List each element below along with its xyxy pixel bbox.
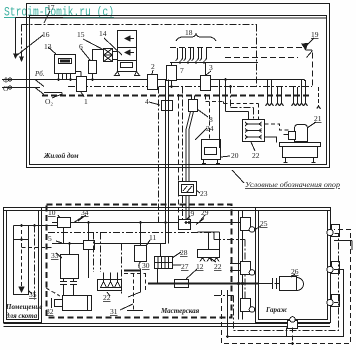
- svg-text:21: 21: [314, 114, 322, 123]
- wire pole to kettle dashed: [265, 124, 289, 130]
- svg-text:23: 23: [200, 189, 208, 198]
- bus into left bushing top: [204, 222, 241, 224]
- wire drop x88: [88, 223, 90, 279]
- svg-text:15: 15: [77, 30, 85, 39]
- workshop top bus: [52, 222, 212, 224]
- leader 31: [120, 304, 133, 310]
- pole 22 crossarms: [245, 122, 262, 126]
- panel 14 body: [118, 31, 137, 72]
- strip 12/22 hooks down: [198, 250, 220, 258]
- svg-text:Мастерская: Мастерская: [160, 307, 200, 315]
- box 23 hatch: [183, 186, 192, 192]
- box 9: [179, 220, 191, 230]
- svg-text:3: 3: [209, 63, 213, 72]
- ground baseline double: [4, 324, 331, 327]
- wire 10 drop: [63, 228, 65, 244]
- heavy bus to garage: [148, 283, 259, 285]
- wire 3 drop: [205, 63, 207, 77]
- breaker 7: [167, 66, 177, 81]
- bushing right bottom: [332, 295, 340, 307]
- pole box 22: [243, 120, 265, 142]
- svg-text:25: 25: [260, 219, 268, 228]
- motor 26 end bell: [297, 278, 304, 291]
- svg-text:19: 19: [311, 30, 319, 39]
- svg-text:Жилой дом: Жилой дом: [43, 152, 79, 160]
- leader 32 dashed: [46, 288, 60, 296]
- bushing right mid: [332, 262, 340, 274]
- leader 8: [197, 109, 208, 117]
- lamps cluster right 2: [292, 87, 300, 106]
- clamp bottom drop solid: [286, 328, 288, 337]
- svg-text:18: 18: [185, 28, 193, 37]
- leader 35: [29, 291, 32, 294]
- right solid inter-clamp: [334, 241, 352, 251]
- svg-text:1: 1: [84, 97, 88, 106]
- panel 14 arrow top: [125, 36, 134, 41]
- breaker 2: [148, 75, 158, 90]
- leader 25: [254, 226, 261, 230]
- wire lighting dash-dot bus: [68, 86, 312, 88]
- dash-dot vertical x122: [121, 244, 123, 296]
- svg-text:20: 20: [231, 151, 239, 160]
- leader 21: [307, 122, 316, 128]
- wire pole to table solid: [265, 137, 277, 143]
- kettle 21 handle: [289, 132, 296, 140]
- svg-text:О₂: О₂: [45, 97, 53, 106]
- svg-text:26: 26: [291, 267, 299, 276]
- lamp drop dashed right: [317, 87, 321, 109]
- leader 11: [146, 240, 150, 246]
- dashed verticals 31: [124, 273, 146, 310]
- svg-text:22: 22: [214, 262, 222, 271]
- svg-text:Помещение: Помещение: [5, 303, 42, 311]
- leader 12b: [186, 269, 197, 279]
- table 21 top: [280, 143, 321, 147]
- panel 14 drum: [121, 63, 133, 68]
- riser pair to garage: [239, 211, 243, 320]
- riser pair through 23: [186, 96, 195, 223]
- wire 17 drop to lighting bus: [256, 25, 258, 87]
- box 11: [135, 246, 147, 262]
- leader 1: [81, 92, 84, 97]
- box 8: [189, 100, 198, 112]
- wire 11 up: [140, 223, 142, 246]
- clamp bottom drop dashed: [292, 328, 294, 344]
- svg-text:32: 32: [46, 307, 54, 316]
- garage box outer: [256, 208, 331, 323]
- cattle shed box outer: [4, 208, 42, 323]
- leader 28: [172, 252, 181, 258]
- wire 19 drop: [306, 50, 313, 86]
- svg-text:31: 31: [110, 307, 118, 316]
- wire to stove dashed: [209, 96, 211, 140]
- motor 26 shaft wire: [259, 283, 274, 285]
- table 21 body: [283, 147, 318, 158]
- motor 33 box: [61, 255, 79, 279]
- leader 16: [16, 35, 43, 56]
- leader 27: [173, 264, 181, 266]
- switch 29: [196, 219, 204, 225]
- shed dashed exit: [22, 247, 53, 249]
- lamp group 18 brace: [176, 34, 216, 41]
- box on riser: [84, 241, 95, 250]
- leader 34: [78, 215, 86, 221]
- leader 10: [58, 215, 60, 218]
- table 21 feet: [284, 158, 316, 163]
- breaker 1: [77, 77, 87, 92]
- strip 22w hooks: [101, 273, 121, 288]
- svg-text:30: 30: [142, 261, 150, 270]
- leader 6: [81, 49, 90, 60]
- leader 22b: [210, 258, 216, 262]
- wire solid stove right feed: [219, 80, 221, 149]
- workshop dash-dot lighting bus: [48, 233, 214, 240]
- svg-text:Условные обозначения опор: Условные обозначения опор: [245, 180, 340, 189]
- motor 32 shaft: [55, 300, 63, 307]
- house box inner: [30, 16, 327, 165]
- svg-text:16: 16: [42, 30, 50, 39]
- leader 2: [152, 70, 153, 74]
- capacitor 33a: [60, 279, 67, 296]
- svg-text:14: 14: [99, 29, 107, 38]
- switch 30: [139, 262, 141, 269]
- leader 24: [195, 128, 207, 140]
- wire service drop 16 horizontal: [16, 17, 64, 19]
- loop dash-dot: [234, 234, 339, 331]
- riser dash-dot x158: [158, 87, 160, 223]
- lamp 35 crossbar: [14, 239, 29, 241]
- wire 17 dash-dot vertical: [21, 25, 23, 60]
- kettle 21 body: [295, 125, 308, 142]
- watermark underline: [4, 17, 114, 19]
- lamp 35 dashed core: [21, 230, 23, 288]
- wire legend dash-dot to pole top: [231, 87, 254, 120]
- wire fuse to bus: [92, 74, 94, 80]
- switch Рб blade on phase: [35, 80, 44, 87]
- svg-text:34: 34: [81, 208, 89, 217]
- wire legend dashed staircase: [206, 96, 259, 120]
- leader legend text: [232, 170, 244, 183]
- garage box inner: [259, 211, 328, 320]
- svg-text:О: О: [3, 84, 9, 93]
- house box (Жилой дом) outer: [27, 4, 330, 168]
- wire 33 to bus5: [69, 244, 71, 255]
- leader 23: [196, 190, 200, 193]
- loop dash-dot stub bushing3: [334, 302, 339, 304]
- breaker 3: [201, 76, 211, 91]
- svg-text:для скота: для скота: [6, 312, 38, 320]
- wire neutral O: [2, 87, 40, 89]
- lamp group 18 bus solid: [170, 62, 258, 64]
- svg-text:4: 4: [145, 97, 149, 106]
- svg-text:35: 35: [29, 290, 37, 299]
- box 23 outer: [179, 182, 197, 196]
- svg-text:29: 29: [201, 208, 209, 217]
- box 12: [175, 280, 189, 288]
- leader 13: [48, 47, 56, 54]
- terminal circles: [8, 78, 11, 81]
- house box inner top second line: [30, 17, 327, 19]
- wire neutral O after switch: [44, 93, 62, 96]
- box 23 inner: [182, 185, 194, 193]
- wire dash-dot lower exit: [214, 295, 234, 297]
- riser solid pair: [166, 80, 169, 223]
- riser dash-dot x182: [182, 87, 184, 221]
- meter 13 window: [59, 59, 72, 64]
- wire 7 drop: [171, 81, 173, 87]
- transformer 28/27: [155, 257, 173, 269]
- leader 15: [83, 39, 104, 50]
- wire fuse to socket: [93, 50, 104, 61]
- svg-text:13: 13: [44, 42, 52, 51]
- wire 7 to lamp bus: [171, 63, 173, 66]
- svg-text:11: 11: [149, 233, 156, 242]
- meter 13 terminals: [59, 74, 71, 80]
- bushing bottom wall: [288, 321, 298, 329]
- meter 13 body: [55, 55, 76, 74]
- strip 22w: [98, 280, 122, 291]
- lamp 35 feed: [14, 225, 58, 227]
- heavy stub: [124, 269, 141, 271]
- lamps 18: [176, 48, 183, 61]
- socket 15: [104, 49, 113, 56]
- lamp group 18 bus dashed: [170, 47, 305, 49]
- wire phase bus Ф: [2, 79, 305, 81]
- loop dashed: [222, 230, 351, 344]
- panel 14 feet: [115, 72, 140, 76]
- cattle shed box inner: [7, 211, 39, 320]
- stove 20 body: [202, 140, 221, 160]
- loop solid: [228, 270, 344, 337]
- bus 5: [52, 243, 166, 245]
- svg-text:Рб.: Рб.: [34, 70, 45, 78]
- stove 20 window: [205, 148, 217, 155]
- leader 0_2: [52, 94, 62, 98]
- svg-text:2: 2: [151, 62, 155, 71]
- riser dashed bold x178: [178, 96, 180, 220]
- wire box8 diagonals: [186, 112, 194, 130]
- svg-text:Гараж: Гараж: [265, 306, 288, 314]
- shed dash-dot riser: [34, 226, 36, 301]
- fuse 6: [89, 61, 97, 74]
- svg-text:12: 12: [196, 262, 204, 271]
- svg-text:27: 27: [181, 262, 189, 271]
- dash-dot drops to strip 22w: [94, 233, 101, 273]
- wire socket to panel 14: [113, 51, 119, 53]
- bushing left top: [241, 218, 251, 231]
- leader 4: [149, 102, 160, 105]
- svg-text:8: 8: [209, 115, 213, 124]
- leader 19: [306, 38, 314, 46]
- wire yard dashed bus: [42, 95, 311, 97]
- leader 29: [200, 215, 205, 221]
- wire strip12 up: [198, 232, 220, 250]
- leader 33: [56, 253, 62, 258]
- bushing right top: [332, 225, 340, 237]
- leader 14: [104, 38, 122, 55]
- wire 31 bottom: [127, 310, 143, 312]
- leader 20: [221, 156, 230, 157]
- bushing left bottom: [241, 299, 251, 312]
- capacitor 33b: [70, 279, 77, 296]
- box 10: [58, 218, 71, 228]
- wire legend solid to pole top: [226, 80, 249, 120]
- leader 3: [206, 71, 211, 75]
- svg-text:7: 7: [180, 66, 184, 75]
- svg-text:33: 33: [51, 251, 59, 260]
- motor 26 coupling: [273, 278, 280, 289]
- panel 14 arrow bottom: [125, 50, 134, 55]
- motor 32 body: [63, 296, 92, 311]
- wires workshop right risers: [166, 223, 169, 244]
- wire transformer up: [160, 244, 162, 257]
- switch 19 symbol: [302, 44, 308, 50]
- wire pole to kettle dashdot: [284, 134, 289, 136]
- motor 26 body: [280, 277, 297, 291]
- svg-text:6: 6: [79, 42, 83, 51]
- lamp 35 frame: [14, 226, 29, 295]
- wire left bushing mid feed: [230, 264, 241, 271]
- svg-text:22: 22: [252, 151, 260, 160]
- box 4: [162, 101, 173, 111]
- wire dash-dot to left bushing 3: [214, 240, 248, 304]
- leader 5: [56, 241, 62, 243]
- switch Рб blade on neutral: [35, 88, 44, 95]
- switch 19 dashed line lower: [225, 57, 298, 59]
- solid bus corner drop: [304, 80, 306, 82]
- lamp 35 arrow: [19, 287, 24, 292]
- svg-text:28: 28: [180, 248, 188, 257]
- wire service drop 16 vertical: [15, 18, 17, 57]
- svg-text:10: 10: [48, 208, 56, 217]
- bushing left mid: [241, 262, 251, 275]
- svg-text:24: 24: [206, 124, 214, 133]
- wire meter to breaker 1: [76, 72, 82, 78]
- yard top double line: [4, 208, 331, 211]
- panel 14 divider: [118, 48, 137, 61]
- wire 30 down: [128, 269, 141, 298]
- leader 9: [186, 216, 190, 220]
- lamp 18 junction dots: [179, 61, 205, 63]
- workshop dashed box: [47, 205, 232, 318]
- wire 17 dash-dot bus: [22, 24, 258, 26]
- leader 22w: [107, 292, 110, 296]
- leader 22 legend: [251, 142, 255, 151]
- switch 34: [74, 217, 83, 223]
- leader 17: [44, 11, 50, 23]
- wire transformer down: [157, 269, 159, 284]
- svg-text:5: 5: [48, 234, 52, 243]
- lamps cluster right 1: [266, 80, 274, 106]
- svg-text:17: 17: [47, 3, 55, 12]
- leader 26: [291, 274, 295, 277]
- stove 20 feet: [202, 160, 220, 164]
- svg-text:22: 22: [103, 293, 111, 302]
